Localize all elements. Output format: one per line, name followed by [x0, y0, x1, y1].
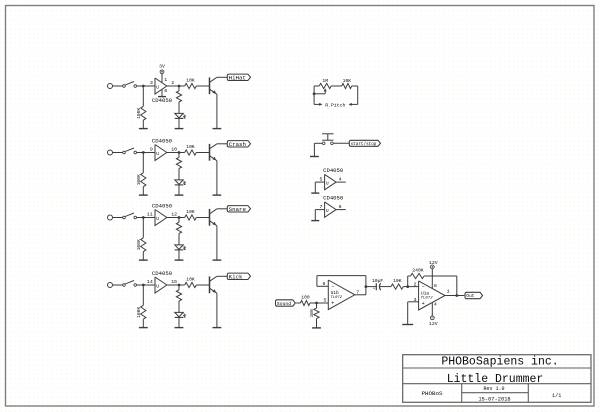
- title block divider: [462, 392, 529, 394]
- junction: [142, 151, 145, 154]
- wire: [366, 286, 376, 288]
- svg-text:3: 3: [150, 80, 153, 86]
- wire: [357, 86, 359, 104]
- ground: [402, 324, 413, 326]
- wire: [142, 153, 144, 173]
- svg-text:4: 4: [339, 176, 342, 182]
- wire: [113, 85, 123, 87]
- svg-text:8: 8: [164, 88, 167, 94]
- svg-text:TL072: TL072: [330, 296, 343, 300]
- resistor 10K (HiHat base): [185, 83, 197, 88]
- wire: [314, 182, 316, 193]
- svg-text:11: 11: [147, 212, 153, 218]
- wire: [142, 319, 144, 327]
- supply 3V: [160, 70, 164, 74]
- ground: [213, 259, 222, 261]
- transistor Q (Snare): [209, 209, 211, 226]
- connector pad (Crash input): [108, 150, 113, 155]
- switch SW (Crash): [123, 151, 126, 154]
- svg-text:Rev 1.0: Rev 1.0: [483, 386, 504, 392]
- wire: [167, 152, 185, 154]
- wire: [196, 152, 209, 154]
- resistor 100K (Snare pulldown): [141, 238, 146, 252]
- wire: [314, 142, 322, 144]
- buffer U1 CD4050 (HiHat): [155, 78, 167, 94]
- resistor 10K (Kick base): [185, 282, 197, 287]
- svg-text:1: 1: [447, 289, 450, 295]
- wire (feedback): [317, 275, 366, 277]
- wire: [178, 118, 180, 128]
- wire: [137, 152, 155, 154]
- resistor 100 (to ground): [314, 308, 319, 319]
- ground: [175, 194, 184, 196]
- wire: [424, 275, 457, 277]
- ground: [139, 327, 148, 329]
- svg-text:Out: Out: [466, 293, 475, 299]
- svg-text:6: 6: [339, 204, 342, 210]
- wire: [380, 286, 391, 288]
- wire: [167, 85, 185, 87]
- net label start/stop: [349, 140, 380, 146]
- wire: [142, 218, 144, 238]
- net label Sound: [276, 300, 296, 306]
- LED (HiHat indicator): [175, 113, 183, 118]
- buffer U1 CD4050 (Crash): [155, 145, 167, 161]
- svg-text:TL072: TL072: [421, 297, 434, 301]
- wire: [315, 181, 324, 183]
- svg-text:100: 100: [309, 309, 315, 318]
- potentiometer 1M (R.Pitch): [319, 83, 331, 88]
- title block divider: [527, 384, 529, 403]
- svg-text:12: 12: [171, 212, 177, 218]
- svg-text:10K: 10K: [186, 209, 195, 215]
- svg-text:15: 15: [171, 279, 177, 285]
- svg-text:Little Drummer: Little Drummer: [447, 373, 544, 386]
- resistor 240K (U1a feedback): [411, 273, 425, 278]
- svg-text:CD4050: CD4050: [152, 137, 173, 144]
- wire: [137, 217, 155, 219]
- switch SW (HiHat): [123, 85, 126, 88]
- svg-text:100K: 100K: [136, 107, 142, 118]
- wire: [142, 120, 144, 128]
- wire: [178, 218, 180, 223]
- wire: [113, 284, 123, 286]
- wire: [142, 86, 144, 106]
- svg-text:PHOBoS: PHOBoS: [422, 390, 443, 397]
- wire: [217, 76, 227, 78]
- wire: [178, 153, 180, 158]
- svg-text:4: 4: [434, 301, 437, 307]
- junction: [142, 85, 145, 88]
- svg-text:R.Pitch: R.Pitch: [325, 103, 345, 109]
- connector pad (Kick input): [108, 283, 113, 288]
- svg-text:10µF: 10µF: [372, 278, 383, 284]
- wire: [355, 294, 366, 296]
- svg-text:HiHat: HiHat: [229, 74, 246, 81]
- svg-text:−: −: [331, 284, 334, 290]
- junction: [178, 85, 181, 88]
- wire: [216, 94, 218, 128]
- title block divider: [403, 383, 591, 385]
- wire: [217, 143, 227, 145]
- ground: [158, 96, 166, 98]
- wire: [113, 217, 123, 219]
- transistor Q (Kick): [209, 276, 211, 293]
- capacitor 10uF: [375, 283, 377, 290]
- wire: [313, 86, 315, 104]
- buffer U1 CD4050 (Snare): [155, 210, 167, 226]
- junction: [313, 92, 316, 95]
- ground: [175, 259, 184, 261]
- wire (feedback): [407, 276, 409, 287]
- svg-text:9: 9: [150, 147, 153, 153]
- wire: [178, 301, 180, 312]
- connector pad (Snare input): [108, 215, 113, 220]
- svg-text:10K: 10K: [186, 144, 195, 150]
- buffer CD4050 (spare 5-4): [325, 174, 337, 189]
- svg-text:3V: 3V: [159, 64, 165, 70]
- wire: [216, 293, 218, 327]
- ground: [213, 327, 222, 329]
- svg-text:Kick: Kick: [229, 273, 243, 280]
- wire: [296, 302, 300, 304]
- resistor 10K (Snare base): [185, 215, 197, 220]
- wire: [142, 252, 144, 260]
- svg-text:10K: 10K: [186, 77, 195, 83]
- wire: [178, 185, 180, 195]
- wire: [352, 85, 358, 87]
- svg-text:CD4050: CD4050: [323, 167, 344, 174]
- wire: [178, 234, 180, 245]
- wire: [113, 152, 123, 154]
- ground: [139, 194, 148, 196]
- connector pad (HiHat input): [108, 84, 113, 89]
- wire: [161, 74, 163, 83]
- wire: [216, 161, 218, 195]
- ground: [139, 259, 148, 261]
- net label Out: [465, 292, 483, 298]
- transistor Q (HiHat): [209, 77, 211, 94]
- wire: [196, 284, 209, 286]
- op-amp U1b TL072: [328, 280, 355, 310]
- resistor 100 (Sound series): [300, 300, 310, 305]
- junction: [142, 284, 145, 287]
- ground: [311, 220, 319, 222]
- wire: [178, 102, 180, 113]
- svg-text:14: 14: [147, 279, 153, 285]
- junction: [406, 285, 409, 288]
- terminal arrow: [314, 103, 320, 105]
- buffer CD4050 (spare 7-6): [325, 202, 337, 217]
- svg-text:1: 1: [164, 77, 167, 83]
- resistor 10K (R.Pitch): [342, 83, 352, 88]
- wire: [316, 319, 318, 328]
- ground: [311, 192, 319, 194]
- wire: [137, 85, 155, 87]
- wire: [336, 181, 346, 183]
- wire: [314, 85, 319, 87]
- wire: [408, 275, 411, 277]
- supply +12V: [430, 265, 434, 269]
- junction: [178, 151, 181, 154]
- wire: [407, 302, 409, 325]
- ground: [175, 327, 184, 329]
- svg-text:U: U: [156, 216, 159, 222]
- svg-text:U: U: [156, 85, 159, 91]
- terminal arrow: [351, 103, 358, 105]
- resistor 100K (HiHat pulldown): [141, 106, 146, 120]
- wire: [336, 209, 346, 211]
- svg-text:10: 10: [171, 147, 177, 153]
- wire: [445, 295, 464, 297]
- svg-text:10K: 10K: [186, 276, 195, 282]
- wire (feedback): [365, 276, 367, 295]
- svg-text:8: 8: [434, 283, 437, 289]
- svg-text:U: U: [156, 151, 159, 157]
- wire: [196, 85, 209, 87]
- resistor (Kick LED series): [176, 290, 181, 301]
- net label Kick: [227, 273, 250, 279]
- svg-text:100K: 100K: [136, 239, 142, 250]
- wire: [333, 142, 349, 144]
- svg-text:10K: 10K: [393, 278, 402, 284]
- svg-text:5: 5: [323, 298, 326, 304]
- wire: [408, 301, 419, 303]
- wire (feedback): [316, 276, 318, 287]
- resistor (Snare LED series): [176, 222, 181, 233]
- svg-text:1/1: 1/1: [552, 393, 561, 399]
- wire: [178, 250, 180, 260]
- wire: [196, 217, 209, 219]
- resistor 10K (U1a input): [391, 284, 403, 289]
- wire: [316, 303, 318, 308]
- LED (Snare indicator): [175, 245, 183, 250]
- svg-text:100K: 100K: [136, 174, 142, 185]
- svg-text:U: U: [326, 208, 329, 214]
- junction: [315, 302, 318, 305]
- title block divider: [403, 367, 591, 369]
- title block frame: [403, 355, 591, 403]
- net label Crash: [227, 141, 250, 147]
- wire: [314, 210, 316, 221]
- switch SW (Snare): [123, 216, 126, 219]
- wire: [315, 209, 324, 211]
- resistor (HiHat LED series): [176, 91, 181, 102]
- wire: [161, 89, 163, 96]
- svg-text:CD4050: CD4050: [152, 270, 173, 277]
- svg-text:1M: 1M: [322, 78, 328, 84]
- svg-text:7: 7: [319, 204, 322, 210]
- svg-text:100K: 100K: [136, 306, 142, 317]
- wire: [216, 226, 218, 260]
- svg-text:U: U: [326, 181, 329, 187]
- pushbutton (start/stop): [322, 142, 325, 145]
- op-amp U1a TL072: [419, 281, 445, 310]
- junction: [178, 216, 181, 219]
- wire: [137, 284, 155, 286]
- svg-text:15-07-2018: 15-07-2018: [478, 396, 510, 402]
- wire: [167, 217, 185, 219]
- supply -12V: [430, 316, 434, 320]
- wire: [178, 317, 180, 327]
- wire: [217, 275, 227, 277]
- wire: [331, 85, 342, 87]
- LED (Crash indicator): [175, 180, 183, 185]
- svg-text:CD4050: CD4050: [323, 195, 344, 202]
- wire: [178, 169, 180, 180]
- pot wiper: [314, 93, 325, 95]
- svg-text:U: U: [156, 284, 159, 290]
- ground: [213, 128, 222, 130]
- ground: [310, 156, 319, 158]
- svg-text:+: +: [331, 301, 334, 307]
- ground: [312, 327, 321, 329]
- wire: [456, 276, 458, 296]
- junction: [455, 294, 458, 297]
- resistor (Crash LED series): [176, 157, 181, 168]
- resistor 100K (Kick pulldown): [141, 305, 146, 319]
- svg-text:PHOBoSapiens inc.: PHOBoSapiens inc.: [441, 356, 558, 369]
- wire (pin 4): [431, 302, 433, 316]
- wire: [403, 286, 418, 288]
- switch SW (Kick): [123, 284, 126, 287]
- wire: [217, 208, 227, 210]
- ground: [213, 194, 222, 196]
- junction: [365, 285, 368, 288]
- resistor 100K (Crash pulldown): [141, 173, 146, 187]
- ground: [139, 128, 148, 130]
- svg-text:240K: 240K: [412, 268, 423, 274]
- title block divider: [461, 384, 463, 403]
- wire: [178, 285, 180, 290]
- svg-text:CD4050: CD4050: [152, 97, 173, 104]
- buffer U1 CD4050 (Kick): [155, 277, 167, 293]
- wire (pin 8): [431, 269, 433, 289]
- wire: [178, 86, 180, 91]
- net label Snare: [227, 206, 250, 212]
- junction: [178, 284, 181, 287]
- wire: [142, 285, 144, 305]
- resistor 10K (Crash base): [185, 150, 197, 155]
- svg-text:10K: 10K: [343, 78, 352, 84]
- svg-text:5: 5: [319, 176, 322, 182]
- wire: [313, 143, 315, 156]
- svg-text:−: −: [422, 285, 425, 291]
- wire: [317, 285, 328, 287]
- svg-text:+: +: [422, 301, 425, 307]
- svg-text:start/stop: start/stop: [351, 142, 377, 147]
- transistor Q (Crash): [209, 144, 211, 161]
- wire: [167, 284, 185, 286]
- svg-text:12V: 12V: [429, 260, 438, 266]
- svg-text:Sound: Sound: [277, 301, 292, 307]
- svg-text:12V: 12V: [429, 321, 438, 327]
- svg-text:Crash: Crash: [229, 141, 246, 148]
- wire: [142, 187, 144, 195]
- net label HiHat: [227, 74, 250, 80]
- svg-text:100: 100: [301, 295, 310, 301]
- svg-text:2: 2: [171, 80, 174, 86]
- svg-text:CD4050: CD4050: [152, 202, 173, 209]
- svg-text:2: 2: [413, 281, 416, 287]
- LED (Kick indicator): [175, 312, 183, 317]
- junction: [142, 216, 145, 219]
- ground: [175, 128, 184, 130]
- wire: [310, 302, 328, 304]
- svg-text:Snare: Snare: [229, 206, 247, 213]
